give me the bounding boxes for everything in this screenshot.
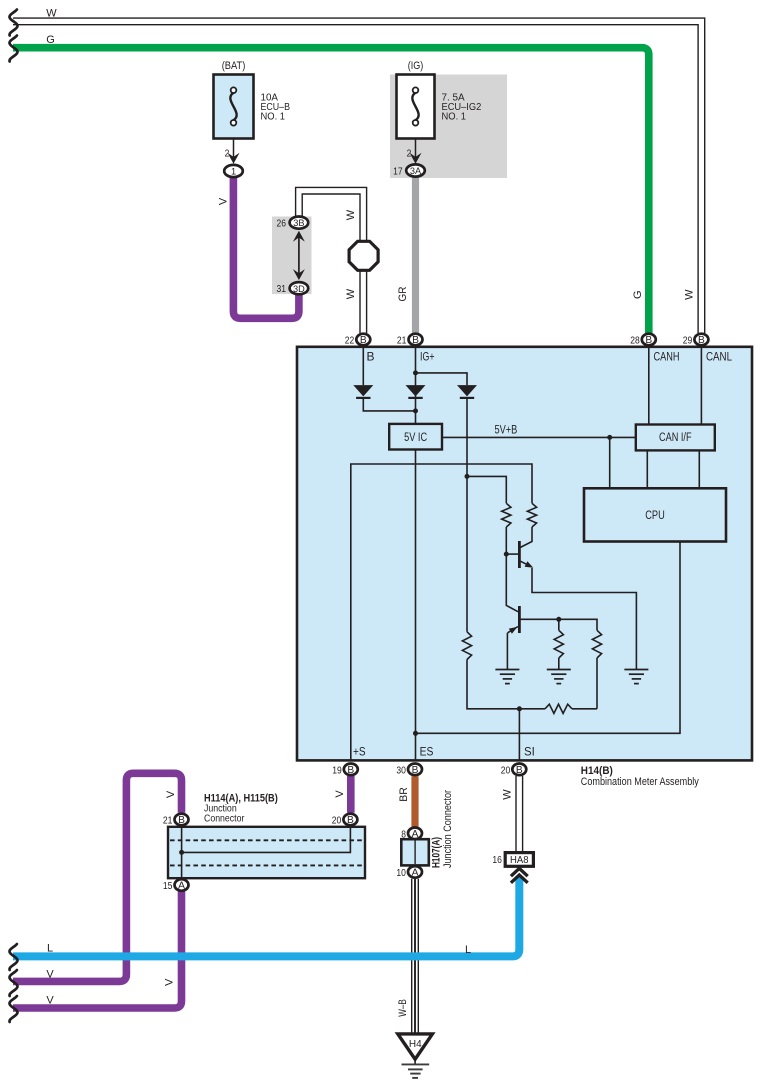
wire G: green wire along top to pin28 CANH [13,48,649,333]
shading behind junction 3B/3D [272,217,312,295]
wire CANH: pin28 to CAN I/F [648,346,650,425]
svg-text:V: V [165,790,177,798]
svg-text:B: B [412,765,419,776]
svg-text:22: 22 [345,336,355,347]
svg-text:ES: ES [420,745,434,759]
svg-text:H107(A): H107(A) [431,837,443,868]
wire SI: junction down to pin20 [518,709,520,761]
break symbol (G feed) [10,36,18,62]
resistor R3 [462,632,471,660]
svg-text:HA8: HA8 [510,855,529,866]
svg-text:26: 26 [277,219,287,230]
svg-text:L: L [47,943,53,955]
svg-text:(IG): (IG) [408,60,424,72]
node: Q1 base / Q2 collector [504,552,509,557]
resistor R5 [592,630,601,658]
CAN I/F block U2 [636,425,715,451]
wire 5V+B: 5V IC to CAN I/F [442,436,636,438]
svg-text:3A: 3A [410,166,422,176]
diode D2 [406,385,426,396]
connector pin 28 B [642,334,656,346]
wire W-B: H107 pin10 down to ground H4 [411,879,419,1034]
resistor R6 (horizontal) [545,704,572,713]
wire: Q2 emitter to ground G1 [506,633,508,670]
resistor R4 [558,619,560,630]
node: R3/R6/SI junction [517,706,522,711]
svg-text:CANL: CANL [706,350,732,364]
svg-text:21: 21 [163,816,173,827]
svg-text:G: G [46,34,55,46]
node: D1 / IG+ join [413,408,418,413]
transistor Q2 (PNP) [518,606,521,633]
node: Q2 base / R4 [556,617,561,622]
svg-text:30: 30 [396,765,406,776]
svg-text:IG+: IG+ [420,350,435,364]
svg-text:B: B [360,335,367,346]
fuse ECU-IG2 7.5A (IG) [397,75,435,139]
connector pin 26 3B [290,217,309,229]
svg-text:V: V [46,995,54,1007]
break symbol (V feed 2) [10,996,18,1022]
ground G3 [624,669,648,671]
svg-text:19: 19 [332,765,342,776]
svg-text:W: W [683,289,695,300]
ground H4 [398,1034,433,1059]
svg-text:3B: 3B [293,218,304,228]
chevron arrows into HA8 [511,868,528,876]
svg-text:BR: BR [398,787,410,802]
node: ES / CPU branch [413,731,418,736]
svg-text:17: 17 [393,167,403,178]
svg-text:5V+B: 5V+B [495,425,518,437]
wire +S: pin19 up and over to resistor R2 [351,464,532,761]
connector pin 1 (fuse ECU-B) [224,165,243,177]
svg-text:B: B [178,815,185,826]
junction connector H107(A) box [401,839,429,865]
connector pin 17 3A (fuse ECU-IG2) [406,164,425,176]
svg-text:B: B [516,765,523,776]
connector HA8 [505,853,533,867]
connector pin 20 B (H115) [343,814,357,826]
noise filter octagon [349,241,378,270]
svg-text:Connector: Connector [204,812,245,824]
wire: fuse ECU-B pin2 lead with arrow [233,139,235,160]
wire L: light-blue wire to HA8 chevrons [13,876,519,956]
wire: Q2 base rail [521,619,597,630]
junction 3B-3D pass-through arrows [298,233,300,278]
svg-text:3D: 3D [293,284,305,294]
fuse ECU-B 10A (BAT) [214,75,254,139]
connector pin 29 B [694,334,708,346]
connector pin 10 A (H107) [408,866,422,878]
CPU block U3 [584,488,726,541]
svg-text:1: 1 [231,167,236,177]
svg-text:B: B [347,765,354,776]
svg-text:B: B [412,335,419,346]
svg-text:CAN I/F: CAN I/F [659,432,692,444]
wire: ES branch to CPU [416,542,681,734]
svg-text:29: 29 [683,336,693,347]
wire: D3 cathode down to resistor R3 [466,399,468,632]
resistor R2 [527,503,536,527]
svg-text:Combination Meter Assembly: Combination Meter Assembly [581,776,699,788]
svg-text:NO. 1: NO. 1 [442,112,467,123]
svg-text:28: 28 [630,336,640,347]
5V IC regulator U1 [389,424,442,450]
wire W: battery white wire along top to pin29 CANL [13,21,701,333]
wire V: left V feed up and over to junction pin21 [13,773,182,981]
wire GR: fuse ECU-IG2 pin 3A down to pin21 IG+ [412,177,419,333]
wire B: pin22 to diode D1 [362,346,364,385]
svg-text:2: 2 [225,149,230,160]
wire: 5V+B branch to CPU [609,437,611,488]
svg-text:CPU: CPU [645,510,665,522]
svg-text:W: W [502,789,514,800]
svg-text:10: 10 [396,868,406,879]
wire W: pin20 SI down to HA8 [515,776,523,853]
wire V: fuse ECU-B pin1 down/over to junction 3D [233,178,299,318]
svg-text:W–B: W–B [397,999,409,1017]
svg-text:H4: H4 [409,1039,422,1050]
wire: Q1 emitter to ground G3 [532,568,636,670]
connector pin 15 A (H114) [175,879,189,891]
transistor Q1 (NPN) [518,541,521,568]
svg-text:V: V [46,969,54,981]
connector pin 8 A (H107) [408,828,422,840]
svg-text:V: V [334,790,346,798]
svg-text:20: 20 [501,765,511,776]
svg-text:CANH: CANH [654,350,680,364]
svg-text:L: L [465,944,471,956]
wires: CAN I/F to CPU [646,450,648,488]
svg-text:21: 21 [397,336,407,347]
svg-text:W: W [345,209,357,220]
svg-text:Junction Connector: Junction Connector [442,790,454,868]
wire: R2 to Q1 collector [520,527,532,547]
connector pin 19 B (+S) [344,764,358,776]
svg-text:31: 31 [277,284,287,295]
wire ES: 5V IC down to pin30 [415,450,417,762]
svg-text:GR: GR [397,286,409,301]
svg-text:W: W [46,8,57,20]
connector pin 21 B [409,334,423,346]
ground G2 [547,669,571,671]
svg-text:W: W [345,288,357,299]
shading behind fuse ECU-IG2 [390,75,507,179]
connector pin 22 B [356,334,370,346]
svg-text:8: 8 [401,829,406,840]
svg-text:A: A [412,868,419,879]
svg-text:G: G [632,290,644,299]
svg-text:(BAT): (BAT) [222,60,246,72]
diode D1 [353,385,373,396]
wire: D3 rail branch to resistor R1 [467,476,506,503]
break symbol (W feed) [10,10,18,36]
svg-text:B: B [698,335,705,346]
svg-text:V: V [164,978,176,986]
diode D3 [457,385,477,396]
junction node in H114/H115 [179,850,184,855]
svg-text:15: 15 [163,881,173,892]
ground G1 [495,669,519,671]
svg-text:NO. 1: NO. 1 [261,112,286,123]
svg-text:SI: SI [524,745,535,759]
wire: Q1 base [506,553,518,555]
combination meter assembly box H14(B) [297,347,752,761]
node: R1 branch [465,474,470,479]
svg-text:A: A [178,881,185,892]
wire V: bottom V feed over and up to junction pin15 [13,892,182,1009]
connector pin 20 B (SI) [512,764,526,776]
connector pin 30 B (ES) [408,764,422,776]
svg-text:2: 2 [407,149,412,160]
wire: IG+ branch to diode D3 [416,373,468,385]
svg-text:5V IC: 5V IC [404,432,427,444]
wire: R1 to Q1 base node and Q2 collector [506,527,518,612]
connector pin 21 B (H114) [175,814,189,826]
break symbol (V feed 1) [10,970,18,996]
wire BR: pin30 ES down to H107 pin8 [411,776,418,826]
svg-text:B: B [367,350,375,364]
wire: D1 cathode to IG+ rail [363,399,415,411]
connector pin 31 3D [290,282,309,294]
wire: fuse ECU-IG2 pin2 lead with arrow [415,139,417,160]
node: IG+ / D3 branch [413,370,418,375]
resistor R1 [502,503,511,527]
svg-text:A: A [412,829,419,840]
svg-text:B: B [347,815,354,826]
wire W: junction 3B up over and down through noise filter to pin22 [299,191,363,333]
wire CANL: pin29 to CAN I/F [700,346,702,425]
svg-text:B: B [645,335,652,346]
node: 5V+B / CPU branch [607,435,612,440]
svg-text:16: 16 [492,855,502,866]
junction connector H114(A)/H115(B) box [168,827,365,878]
svg-text:V: V [218,197,230,205]
break symbol (L feed) [10,944,18,970]
svg-text:+S: +S [353,745,366,759]
svg-text:20: 20 [332,816,342,827]
wire V: pin19 +S down to junction pin20 [347,776,355,813]
wire inside H114/H115: pin21 to pin20 and pin15 [181,827,183,878]
wire IG+: pin21 to 5V IC [415,346,417,424]
